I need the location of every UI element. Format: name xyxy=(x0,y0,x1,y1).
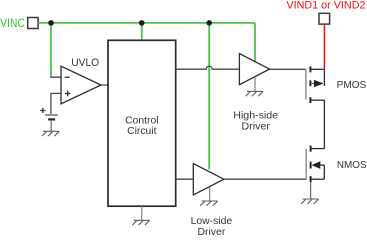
wire: PMOS drain to NMOS drain xyxy=(323,100,325,148)
svg-text:High-side: High-side xyxy=(233,110,278,121)
ground (battery) xyxy=(42,131,59,136)
svg-text:VINC: VINC xyxy=(0,18,25,30)
ground (low-side driver) xyxy=(200,201,217,206)
wire: battery to ground xyxy=(50,121,52,132)
wire: control to low-side driver xyxy=(176,178,194,180)
svg-text:NMOS: NMOS xyxy=(337,160,367,171)
junction node A (UVLO tap) xyxy=(48,20,54,26)
ground (NMOS) xyxy=(301,199,318,204)
svg-text:PMOS: PMOS xyxy=(337,80,367,91)
svg-text:VIND1 or VIND2: VIND1 or VIND2 xyxy=(286,0,365,11)
transistor Q2 NMOS xyxy=(306,146,324,183)
wire: green drop to Low-side Driver xyxy=(208,23,210,170)
buffer: Low-side Driver xyxy=(193,164,224,195)
svg-text:Low-side: Low-side xyxy=(191,216,233,227)
wire: green drop to Control Circuit top xyxy=(141,23,143,41)
wire: NMOS source to ground xyxy=(310,182,312,199)
wire: low-side driver to ground xyxy=(209,187,211,201)
wire: green VINC bus xyxy=(38,22,255,24)
svg-text:Circuit: Circuit xyxy=(127,126,157,137)
svg-text:Control: Control xyxy=(125,115,159,126)
wire: green drop to UVLO minus input xyxy=(50,23,52,76)
svg-text:UVLO: UVLO xyxy=(71,57,99,69)
svg-text:Driver: Driver xyxy=(241,121,270,132)
wire: green drop to High-side Driver xyxy=(254,23,256,61)
battery B1 (reference) xyxy=(40,108,58,120)
wire: control circuit to ground xyxy=(141,206,143,220)
block: Control Circuit xyxy=(108,40,176,206)
wire: elbow into UVLO minus input xyxy=(51,76,61,78)
pin VIND xyxy=(319,13,330,24)
buffer: High-side Driver xyxy=(239,54,269,85)
wire: UVLO output to control circuit xyxy=(101,84,108,86)
op-amp U1 UVLO comparator xyxy=(61,66,101,104)
wire: low-side output to NMOS gate xyxy=(224,178,306,180)
pin VINC xyxy=(28,18,38,29)
wire: high-side output to PMOS gate xyxy=(270,68,307,70)
wire: control to high-side driver (hop over green) xyxy=(176,66,240,69)
transistor Q1 PMOS xyxy=(306,67,325,104)
ground (control circuit) xyxy=(132,220,149,225)
wire: high-side driver to ground xyxy=(254,77,256,92)
junction node B (control tap) xyxy=(139,20,145,26)
ground (high-side driver) xyxy=(246,91,263,96)
svg-text:Driver: Driver xyxy=(198,227,226,236)
junction node C (low-side tap) xyxy=(206,20,212,26)
wire: comparator plus input from battery xyxy=(51,93,61,114)
wire: VIND to PMOS source (red) xyxy=(323,24,325,69)
